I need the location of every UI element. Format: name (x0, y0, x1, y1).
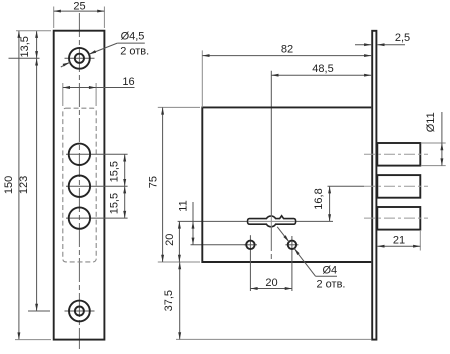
dimension 150 (18, 31, 20, 340)
svg-text:82: 82 (281, 44, 293, 56)
screw hole top ext line (9, 57, 40, 59)
screw hole bottom ext line (28, 310, 50, 312)
svg-text:15,5: 15,5 (109, 193, 121, 214)
leader O4 diagonal lower segment (294, 248, 316, 276)
leader O4,5 arrow upper-right (89, 50, 96, 54)
screw hole top (countersunk) (69, 48, 90, 69)
svg-text:150: 150 (3, 176, 15, 194)
leader O4 shelf (316, 275, 337, 277)
svg-text:2 отв.: 2 отв. (317, 279, 346, 291)
dimension 21 ext line (419, 231, 421, 251)
leader O4,5 shelf (117, 42, 145, 44)
svg-text:48,5: 48,5 (312, 63, 333, 75)
key slot cutout (248, 216, 296, 227)
dimension 25 ext lines (53, 7, 55, 29)
leader O4 arrow lower-right (294, 248, 300, 255)
dimension 11 (192, 202, 194, 221)
dimension 16,8 (329, 186, 331, 221)
key slot centerline overlay (248, 220, 295, 222)
dimension 48,5 (271, 74, 371, 76)
bolt 3 centerline (364, 217, 428, 219)
holes line ext (191, 244, 247, 246)
fixing hole 1 cross (244, 244, 257, 246)
svg-text:13,5: 13,5 (19, 36, 31, 57)
svg-text:25: 25 (73, 1, 85, 13)
centerline faceplate vertical (78, 13, 80, 349)
svg-text:16: 16 (122, 76, 134, 88)
dimension 13,5 (36, 31, 38, 59)
svg-text:15,5: 15,5 (109, 161, 121, 182)
bolt 2 centerline (364, 185, 428, 187)
leader O4,5 diagonal lower-left segment (61, 62, 70, 67)
bolt 2 (377, 175, 420, 198)
faceplate outline (54, 31, 105, 340)
dimension 15,5 lower (124, 186, 126, 218)
bolt 3 (377, 207, 420, 230)
dimension 82 (202, 55, 371, 57)
dimension 15,5 upper (124, 154, 126, 186)
dimension 82 ext line (201, 50, 203, 107)
leader O4,5 diagonal upper-right segment (89, 43, 117, 54)
fixing hole 2 cross (285, 244, 298, 246)
fixing hole 2 (288, 241, 296, 249)
dimension 16,8 ext line (328, 185, 365, 187)
bolt hole 3 centerline (66, 217, 128, 219)
bolt hole 1 (69, 144, 90, 165)
svg-text:16,8: 16,8 (313, 188, 325, 209)
svg-text:21: 21 (393, 235, 405, 247)
ext line plate bottom left (15, 339, 51, 341)
dimension 2,5 right tail (377, 44, 405, 46)
bolt 1 centerline (364, 153, 428, 155)
svg-text:20: 20 (164, 234, 176, 246)
screw hole top centerline (65, 57, 95, 59)
svg-text:2 отв.: 2 отв. (120, 46, 149, 58)
screw hole bottom centerline (65, 310, 95, 312)
svg-text:37,5: 37,5 (163, 290, 175, 311)
dimension 20 bottom (250, 288, 292, 290)
key slot vertical centerline through bump (270, 216, 272, 228)
body vertical centerline / 48,5 ext (270, 71, 272, 216)
svg-text:Ø11: Ø11 (425, 112, 437, 132)
dimension 20 left (178, 221, 180, 262)
dimension 16 (63, 87, 96, 89)
dimension O11 ext lines (421, 142, 446, 144)
dimension 123 (36, 58, 38, 311)
ext line plate top left (16, 30, 51, 32)
dimension 37,5 ext line (176, 338, 371, 340)
bolt hole 1 centerline (66, 153, 128, 155)
dimension 75 ext lines (158, 106, 200, 108)
dimension 2,5 left tail (355, 44, 371, 46)
leader O4,5 arrow lower-left (63, 62, 70, 66)
svg-text:11: 11 (177, 200, 189, 211)
key slot horizontal centerline (178, 220, 333, 222)
bolt hole 3 (69, 207, 90, 228)
dimension 21 (377, 245, 420, 247)
dimension 37,5 (179, 262, 181, 339)
svg-text:20: 20 (265, 277, 277, 289)
dimension O11 (441, 112, 443, 143)
leader O4 diagonal upper segment (277, 227, 289, 242)
screw hole bottom (countersunk) (69, 301, 90, 322)
svg-text:Ø4,5: Ø4,5 (121, 30, 145, 42)
body outline (202, 107, 371, 262)
svg-text:Ø4: Ø4 (322, 265, 337, 277)
hidden pocket (dashed) (63, 108, 96, 262)
svg-text:2,5: 2,5 (395, 32, 410, 44)
dimension 16 ext lines (62, 83, 64, 106)
bolt hole 2 (69, 176, 90, 197)
fixing hole 1 (246, 241, 254, 249)
svg-text:123: 123 (18, 176, 30, 194)
leader O4 arrow upper-left (283, 235, 289, 242)
bolt 1 (377, 143, 420, 166)
svg-text:75: 75 (148, 176, 160, 188)
bolt hole 2 centerline (66, 185, 128, 187)
faceplate side view (372, 31, 376, 340)
dimension 25 (54, 10, 105, 12)
dimension 75 (162, 107, 164, 262)
